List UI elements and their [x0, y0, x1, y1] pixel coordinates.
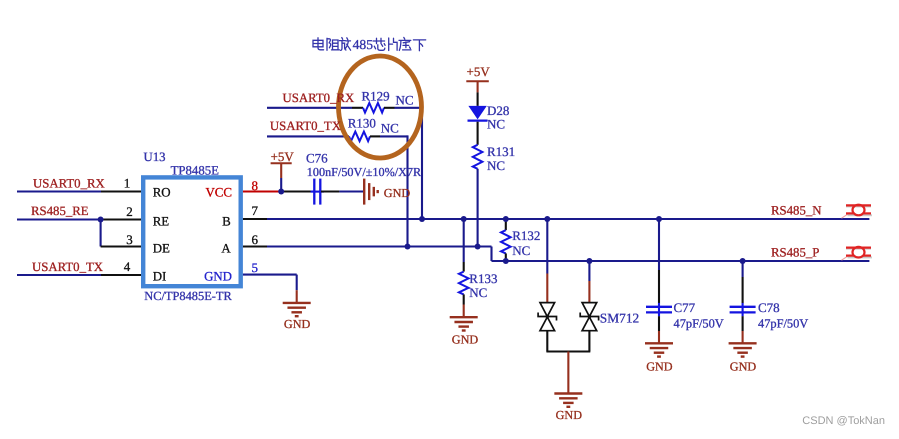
- svg-text:RO: RO: [153, 185, 171, 199]
- svg-text:R132: R132: [512, 228, 540, 243]
- svg-text:NC: NC: [469, 285, 487, 300]
- svg-text:USART0_TX: USART0_TX: [32, 260, 104, 274]
- svg-text:GND: GND: [284, 317, 311, 331]
- svg-text:7: 7: [251, 203, 258, 218]
- svg-text:R130: R130: [348, 116, 376, 131]
- svg-text:GND: GND: [646, 360, 673, 374]
- svg-text:4: 4: [124, 259, 131, 274]
- svg-text:R133: R133: [469, 271, 497, 286]
- svg-text:DI: DI: [153, 269, 167, 283]
- svg-text:NC/TP8485E-TR: NC/TP8485E-TR: [144, 289, 232, 303]
- svg-text:100nF/50V/±10%/X7R: 100nF/50V/±10%/X7R: [307, 165, 422, 179]
- svg-text:5: 5: [251, 260, 258, 275]
- svg-text:47pF/50V: 47pF/50V: [674, 317, 724, 331]
- svg-text:RS485_RE: RS485_RE: [31, 204, 89, 218]
- svg-text:RE: RE: [153, 214, 170, 228]
- svg-text:USART0_RX: USART0_RX: [33, 176, 106, 190]
- svg-text:6: 6: [251, 232, 258, 247]
- svg-text:B: B: [222, 214, 231, 228]
- svg-text:3: 3: [126, 232, 133, 247]
- svg-text:8: 8: [251, 178, 258, 193]
- svg-text:1: 1: [124, 176, 131, 191]
- svg-text:GND: GND: [384, 186, 411, 200]
- svg-text:485: 485: [353, 37, 374, 52]
- svg-text:GND: GND: [204, 269, 232, 283]
- svg-text:C76: C76: [306, 150, 328, 165]
- svg-text:+5V: +5V: [467, 64, 491, 79]
- svg-text:R129: R129: [362, 88, 390, 103]
- svg-text:NC: NC: [396, 92, 414, 107]
- svg-text:+5V: +5V: [271, 149, 295, 164]
- svg-text:USART0_RX: USART0_RX: [283, 91, 356, 105]
- svg-text:U13: U13: [144, 150, 166, 164]
- svg-text:DE: DE: [153, 241, 170, 255]
- svg-text:R131: R131: [487, 144, 515, 159]
- svg-text:VCC: VCC: [205, 185, 232, 199]
- svg-text:USART0_TX: USART0_TX: [270, 119, 342, 133]
- svg-text:C78: C78: [758, 300, 780, 315]
- svg-text:GND: GND: [452, 332, 479, 346]
- svg-text:NC: NC: [381, 121, 399, 136]
- svg-text:SM712: SM712: [600, 311, 639, 326]
- svg-text:A: A: [221, 241, 231, 255]
- svg-text:RS485_P: RS485_P: [771, 246, 819, 260]
- svg-text:GND: GND: [556, 408, 583, 422]
- svg-text:NC: NC: [487, 158, 505, 173]
- svg-text:NC: NC: [487, 116, 505, 131]
- svg-text:CSDN @TokNan: CSDN @TokNan: [802, 415, 885, 427]
- svg-text:C77: C77: [674, 300, 696, 315]
- svg-text:2: 2: [126, 204, 133, 219]
- svg-text:TP8485E: TP8485E: [171, 163, 220, 177]
- svg-text:NC: NC: [512, 243, 530, 258]
- svg-text:47pF/50V: 47pF/50V: [758, 317, 808, 331]
- svg-text:RS485_N: RS485_N: [771, 203, 822, 217]
- svg-text:GND: GND: [730, 360, 757, 374]
